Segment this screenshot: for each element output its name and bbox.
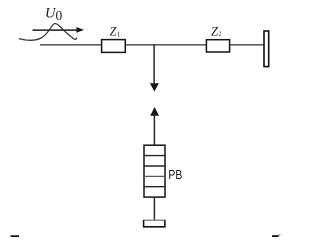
wire Z1 to Z2	[125, 44, 206, 46]
load termination plate (right)	[264, 31, 269, 67]
svg-text:PB: PB	[168, 168, 182, 182]
cropped text fragment bottom-right	[272, 235, 281, 237]
wire PB to ground plate	[153, 197, 155, 220]
svg-text:2: 2	[218, 31, 221, 38]
cropped text fragment bottom-left	[11, 235, 20, 237]
impedance Z2	[206, 40, 229, 52]
arrow up toward PB	[150, 107, 159, 145]
impedance Z1	[102, 40, 126, 53]
svg-text:1: 1	[117, 29, 121, 38]
svg-text:0: 0	[56, 8, 63, 23]
impulse waveform U0	[19, 23, 77, 40]
svg-text:Z: Z	[110, 24, 117, 38]
arrester PB body	[143, 145, 166, 197]
ground plate	[144, 220, 165, 227]
junction wire down with arrow	[150, 45, 159, 92]
wire Z2 to load	[230, 44, 264, 46]
source arrow	[33, 27, 85, 33]
wire from source to Z1	[40, 44, 102, 46]
label PB	[168, 168, 182, 182]
